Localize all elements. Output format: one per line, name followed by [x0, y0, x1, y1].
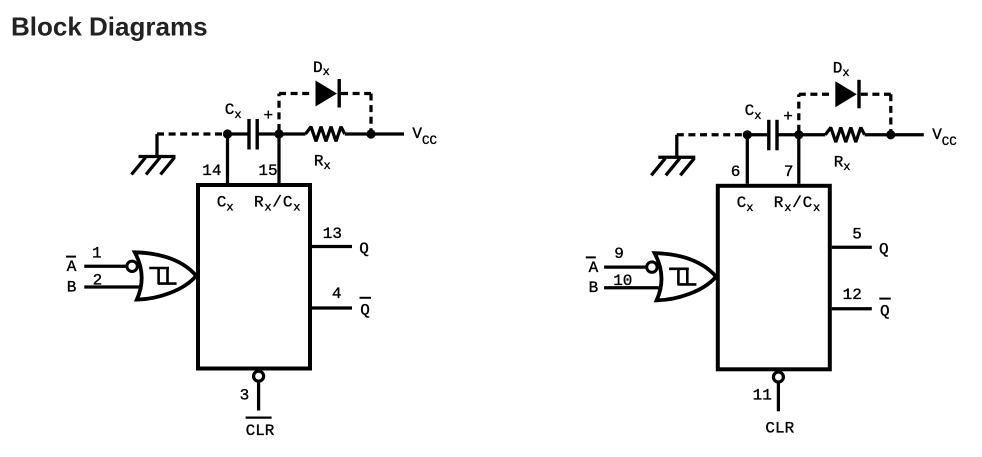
svg-text:Rx/Cx: Rx/Cx [254, 193, 301, 214]
svg-text:CLR: CLR [246, 422, 275, 440]
wire node B2 up (dashed) [797, 94, 800, 132]
wire resistor to node C [345, 132, 371, 135]
svg-text:Dx: Dx [313, 59, 330, 79]
svg-text:2: 2 [93, 271, 103, 289]
wire ground to node A (dashed) [157, 132, 225, 135]
wire CLR pin 11 [777, 382, 780, 411]
capacitor C_X plate left [767, 120, 770, 151]
svg-text:11: 11 [753, 387, 772, 405]
svg-text:3: 3 [240, 387, 250, 405]
wire CLR pin 3 [257, 381, 260, 410]
clear bubble [254, 371, 264, 381]
input gate (OR with schmitt) [135, 252, 196, 299]
svg-text:Cx: Cx [737, 194, 754, 215]
wire ground to node A2 (dashed) [677, 133, 745, 136]
wire pin 7 [797, 135, 800, 184]
wire capacitor to node B2 [777, 133, 799, 136]
svg-text:4: 4 [332, 285, 342, 303]
svg-text:B: B [67, 278, 77, 296]
clear bubble [773, 372, 783, 382]
wire to diode anode (dashed) [279, 92, 314, 95]
overline of Qbar [360, 297, 372, 299]
svg-text:7: 7 [784, 163, 794, 181]
wire node B up (dashed) [277, 94, 280, 132]
input gate (OR with schmitt) [655, 253, 716, 300]
input bubble on A [647, 262, 657, 272]
overline of A [586, 256, 596, 258]
svg-text:1: 1 [92, 244, 102, 262]
ground [651, 135, 695, 176]
resistor R_X [306, 127, 345, 142]
svg-text:12: 12 [843, 286, 862, 304]
schmitt-trigger symbol [669, 269, 696, 285]
svg-text:Block Diagrams: Block Diagrams [11, 12, 208, 42]
svg-text:Q: Q [880, 302, 890, 320]
wire node C2 to VCC [891, 133, 924, 136]
capacitor C_X plate right [256, 119, 259, 150]
wire node A to capacitor [228, 132, 248, 135]
svg-text:Q: Q [879, 241, 889, 259]
svg-text:13: 13 [323, 225, 342, 243]
capacitor C_X plate right [775, 120, 778, 151]
wire input B pin 2 [84, 285, 139, 288]
svg-text:A: A [589, 259, 599, 277]
svg-text:Q: Q [360, 302, 370, 320]
svg-text:Rx/Cx: Rx/Cx [774, 194, 821, 215]
overline of A [66, 256, 76, 258]
overline of CLR [246, 417, 272, 419]
diode D_X [835, 80, 859, 109]
svg-text:A: A [67, 258, 77, 276]
svg-text:Cx: Cx [225, 101, 242, 122]
wire pin 6 [746, 135, 749, 184]
node B [274, 129, 283, 138]
resistor R_X [825, 128, 864, 143]
svg-text:6: 6 [731, 163, 741, 181]
node C2 [886, 130, 895, 139]
schmitt-trigger symbol [149, 268, 176, 284]
svg-text:15: 15 [258, 162, 277, 180]
wire diode cathode to node C2 (dashed) [861, 93, 891, 96]
capacitor C_X plate left [247, 119, 250, 150]
wire input A pin 9 [604, 265, 647, 268]
svg-text:CLR: CLR [765, 420, 794, 438]
svg-text:Cx: Cx [217, 193, 234, 214]
wire node A2 to capacitor [747, 133, 767, 136]
wire pin 14 [226, 134, 229, 183]
node C [366, 129, 375, 138]
node A [223, 129, 232, 138]
wire node C to VCC [371, 132, 404, 135]
wire down to node C (dashed) [369, 94, 372, 132]
wire output Q pin 5 [832, 246, 872, 249]
wire down to node C2 (dashed) [889, 94, 892, 132]
wire output Q pin 13 [312, 245, 352, 248]
svg-text:VCC: VCC [412, 125, 437, 148]
wire input B pin 10 [604, 286, 659, 289]
overline of Qbar [879, 298, 891, 300]
wire pin 15 [277, 134, 280, 183]
svg-text:Q: Q [359, 240, 369, 258]
wire input A pin 1 [84, 265, 127, 268]
svg-text:10: 10 [613, 272, 632, 290]
one-shot block U2 [718, 186, 830, 369]
one-shot block U1 [198, 185, 310, 369]
wire resistor to node C2 [865, 133, 891, 136]
svg-text:VCC: VCC [932, 126, 957, 149]
node A2 [743, 130, 752, 139]
ground [132, 134, 176, 175]
svg-text:+: + [264, 107, 274, 125]
diode D_X [316, 79, 340, 108]
node B2 [794, 130, 803, 139]
wire capacitor to node B [257, 132, 279, 135]
wire output Qbar pin 4 [312, 306, 352, 309]
wire node B to resistor [279, 132, 306, 135]
svg-text:Cx: Cx [745, 102, 762, 123]
svg-text:5: 5 [852, 226, 862, 244]
svg-text:B: B [589, 279, 599, 297]
wire output Qbar pin 12 [832, 307, 872, 310]
svg-text:Rx: Rx [314, 153, 331, 173]
input bubble on A [127, 261, 137, 271]
wire node B2 to resistor [799, 133, 826, 136]
svg-text:14: 14 [202, 162, 221, 180]
svg-text:Rx: Rx [834, 153, 851, 173]
wire diode cathode to node C (dashed) [341, 92, 371, 95]
wire to diode anode (dashed) [799, 93, 834, 96]
svg-text:+: + [783, 108, 793, 126]
svg-text:9: 9 [614, 245, 624, 263]
svg-text:Dx: Dx [833, 60, 850, 80]
